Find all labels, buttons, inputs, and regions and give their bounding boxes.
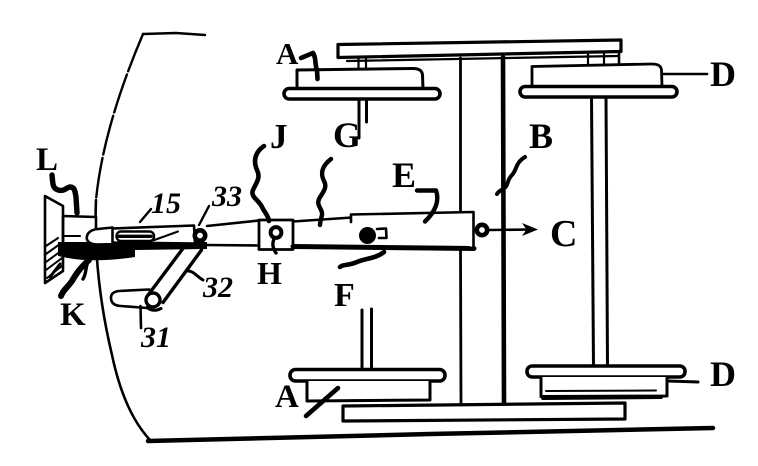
link 32 end loop <box>146 293 160 307</box>
slash A bottom <box>306 388 338 416</box>
leader J <box>252 146 269 221</box>
hatch stroke below plate <box>50 264 60 277</box>
draft box <box>63 216 96 243</box>
axle G (upper left) <box>359 99 367 138</box>
top plate <box>338 40 621 58</box>
svg-text:A: A <box>276 36 299 71</box>
svg-text:D: D <box>710 54 736 94</box>
leader to D (top) <box>663 73 707 76</box>
eye C <box>477 225 487 235</box>
car body outline curve upper <box>96 34 143 200</box>
draft box inner dash <box>65 235 80 237</box>
svg-text:G: G <box>333 115 361 155</box>
top plate right stub <box>618 51 621 64</box>
end plate hatching <box>46 238 63 278</box>
leader F <box>340 252 384 267</box>
bolster vertical thin <box>459 58 462 404</box>
slot bar 15 <box>112 226 196 244</box>
bottom plate <box>343 403 625 421</box>
svg-text:C: C <box>550 213 577 255</box>
wheel A hub (upper left) <box>297 69 423 90</box>
leader K <box>61 260 89 296</box>
leader G <box>318 159 331 225</box>
leader 33 <box>199 206 209 225</box>
bar E <box>351 212 474 247</box>
leader E <box>417 191 437 222</box>
svg-text:K: K <box>60 297 86 333</box>
link 32 <box>149 245 202 303</box>
plate stub to right wheel <box>588 53 604 65</box>
plate stub to left wheel <box>359 58 367 69</box>
axle D (right, full) <box>592 97 608 367</box>
slot mid line <box>119 235 151 238</box>
leader K second stroke <box>83 262 88 279</box>
car body outline curve lower <box>96 200 150 440</box>
wheel A flange (lower left) <box>290 370 445 382</box>
axle (lower left) <box>362 309 372 369</box>
wheel D hub (upper right) <box>532 64 662 86</box>
svg-text:D: D <box>710 354 736 394</box>
svg-text:A: A <box>275 379 299 415</box>
end plate K/L <box>45 196 63 283</box>
slot taper line <box>153 232 178 241</box>
svg-text:31: 31 <box>140 321 171 354</box>
block H <box>259 220 293 250</box>
svg-text:32: 32 <box>202 271 233 304</box>
heavy bar bottom line <box>293 247 474 249</box>
svg-text:15: 15 <box>151 187 181 220</box>
bolster vertical thick B <box>503 57 504 404</box>
wheel A hub (lower left) <box>307 381 430 401</box>
wheel D hub heavy bottom (lower right) <box>543 397 661 398</box>
leader to D (bottom) <box>668 381 698 382</box>
pin H (ring with tail) <box>271 227 282 238</box>
wheel A flange (upper left) <box>284 89 440 100</box>
pin F <box>359 227 376 244</box>
top plate under line <box>347 56 618 61</box>
arrow C <box>489 228 530 231</box>
pivot ring 33 <box>195 230 205 240</box>
tick to 31 <box>139 306 142 328</box>
svg-text:H: H <box>257 255 282 291</box>
ground line <box>148 428 713 441</box>
top horizontal line <box>143 33 205 35</box>
svg-text:E: E <box>392 155 416 195</box>
wheel D flange (upper right) <box>520 87 677 98</box>
wheel D flange (lower right) <box>527 366 685 377</box>
svg-text:F: F <box>334 277 355 314</box>
svg-text:B: B <box>529 116 553 156</box>
svg-text:J: J <box>270 117 288 156</box>
wheel D hub (lower right) <box>541 377 667 397</box>
leader B <box>497 157 525 194</box>
pin F latch <box>377 229 387 239</box>
black draft band <box>58 242 207 260</box>
svg-text:L: L <box>36 142 58 178</box>
svg-text:33: 33 <box>211 180 242 213</box>
slot (inner) <box>117 232 155 242</box>
leader L <box>52 175 77 213</box>
leader 32 <box>186 271 203 280</box>
wheel D hub inner line (lower right) <box>546 390 656 393</box>
leader 15 <box>140 209 151 222</box>
bar 33 to H <box>205 221 259 246</box>
coupler head <box>87 228 113 245</box>
handle 31 <box>111 290 154 309</box>
thin bar H to E <box>293 218 352 222</box>
loop under-arc <box>147 308 161 311</box>
pointer A top <box>301 53 318 79</box>
